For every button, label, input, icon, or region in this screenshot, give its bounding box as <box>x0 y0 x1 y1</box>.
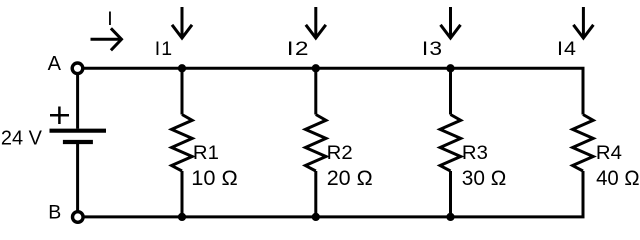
svg-text:R2: R2 <box>327 142 353 164</box>
svg-text:R1: R1 <box>193 142 219 164</box>
node B terminal circle <box>73 212 84 223</box>
resistor R1 zigzag <box>172 115 193 172</box>
battery plus sign <box>50 107 69 125</box>
svg-text:I4: I4 <box>557 38 577 60</box>
junction dot top R2 <box>312 64 320 72</box>
current arrow I4 <box>573 7 593 38</box>
current arrow I3 <box>441 7 461 38</box>
resistor R3 zigzag <box>440 115 461 172</box>
wire top bus from node A to R4 branch <box>83 68 583 114</box>
svg-text:40 Ω: 40 Ω <box>596 166 640 190</box>
junction dot top R3 <box>446 64 454 72</box>
svg-text:I2: I2 <box>287 38 310 60</box>
svg-text:10 Ω: 10 Ω <box>191 166 238 190</box>
battery V1 negative plate <box>63 140 93 144</box>
battery V1 positive plate <box>50 129 107 133</box>
node A terminal circle <box>72 63 83 74</box>
svg-text:A: A <box>48 53 62 75</box>
svg-text:24 V: 24 V <box>1 127 42 150</box>
current arrow I1 <box>172 7 192 38</box>
svg-text:R3: R3 <box>462 142 488 164</box>
resistor R2 zigzag <box>305 115 326 172</box>
svg-text:R4: R4 <box>596 142 622 164</box>
current arrow I (horizontal) <box>91 28 122 50</box>
resistor R2 branch leads <box>314 68 317 217</box>
junction dot bottom R2 <box>312 213 320 221</box>
svg-text:I1: I1 <box>155 38 173 60</box>
current arrow I2 <box>306 7 326 38</box>
svg-text:I: I <box>107 8 112 30</box>
junction dot top R1 <box>178 64 186 72</box>
resistor R1 branch leads <box>181 68 184 217</box>
svg-text:30 Ω: 30 Ω <box>462 166 507 190</box>
svg-text:I3: I3 <box>422 38 443 60</box>
junction dot bottom R1 <box>178 213 186 221</box>
resistor R4 zigzag <box>573 115 594 172</box>
wire battery top lead <box>76 74 79 129</box>
resistor R3 branch leads <box>449 68 452 217</box>
svg-text:20 Ω: 20 Ω <box>327 166 373 190</box>
svg-text:B: B <box>48 202 61 224</box>
wire battery bottom lead <box>76 144 79 212</box>
wire bottom bus from node B to R4 branch <box>83 171 583 217</box>
junction dot bottom R3 <box>446 213 454 221</box>
